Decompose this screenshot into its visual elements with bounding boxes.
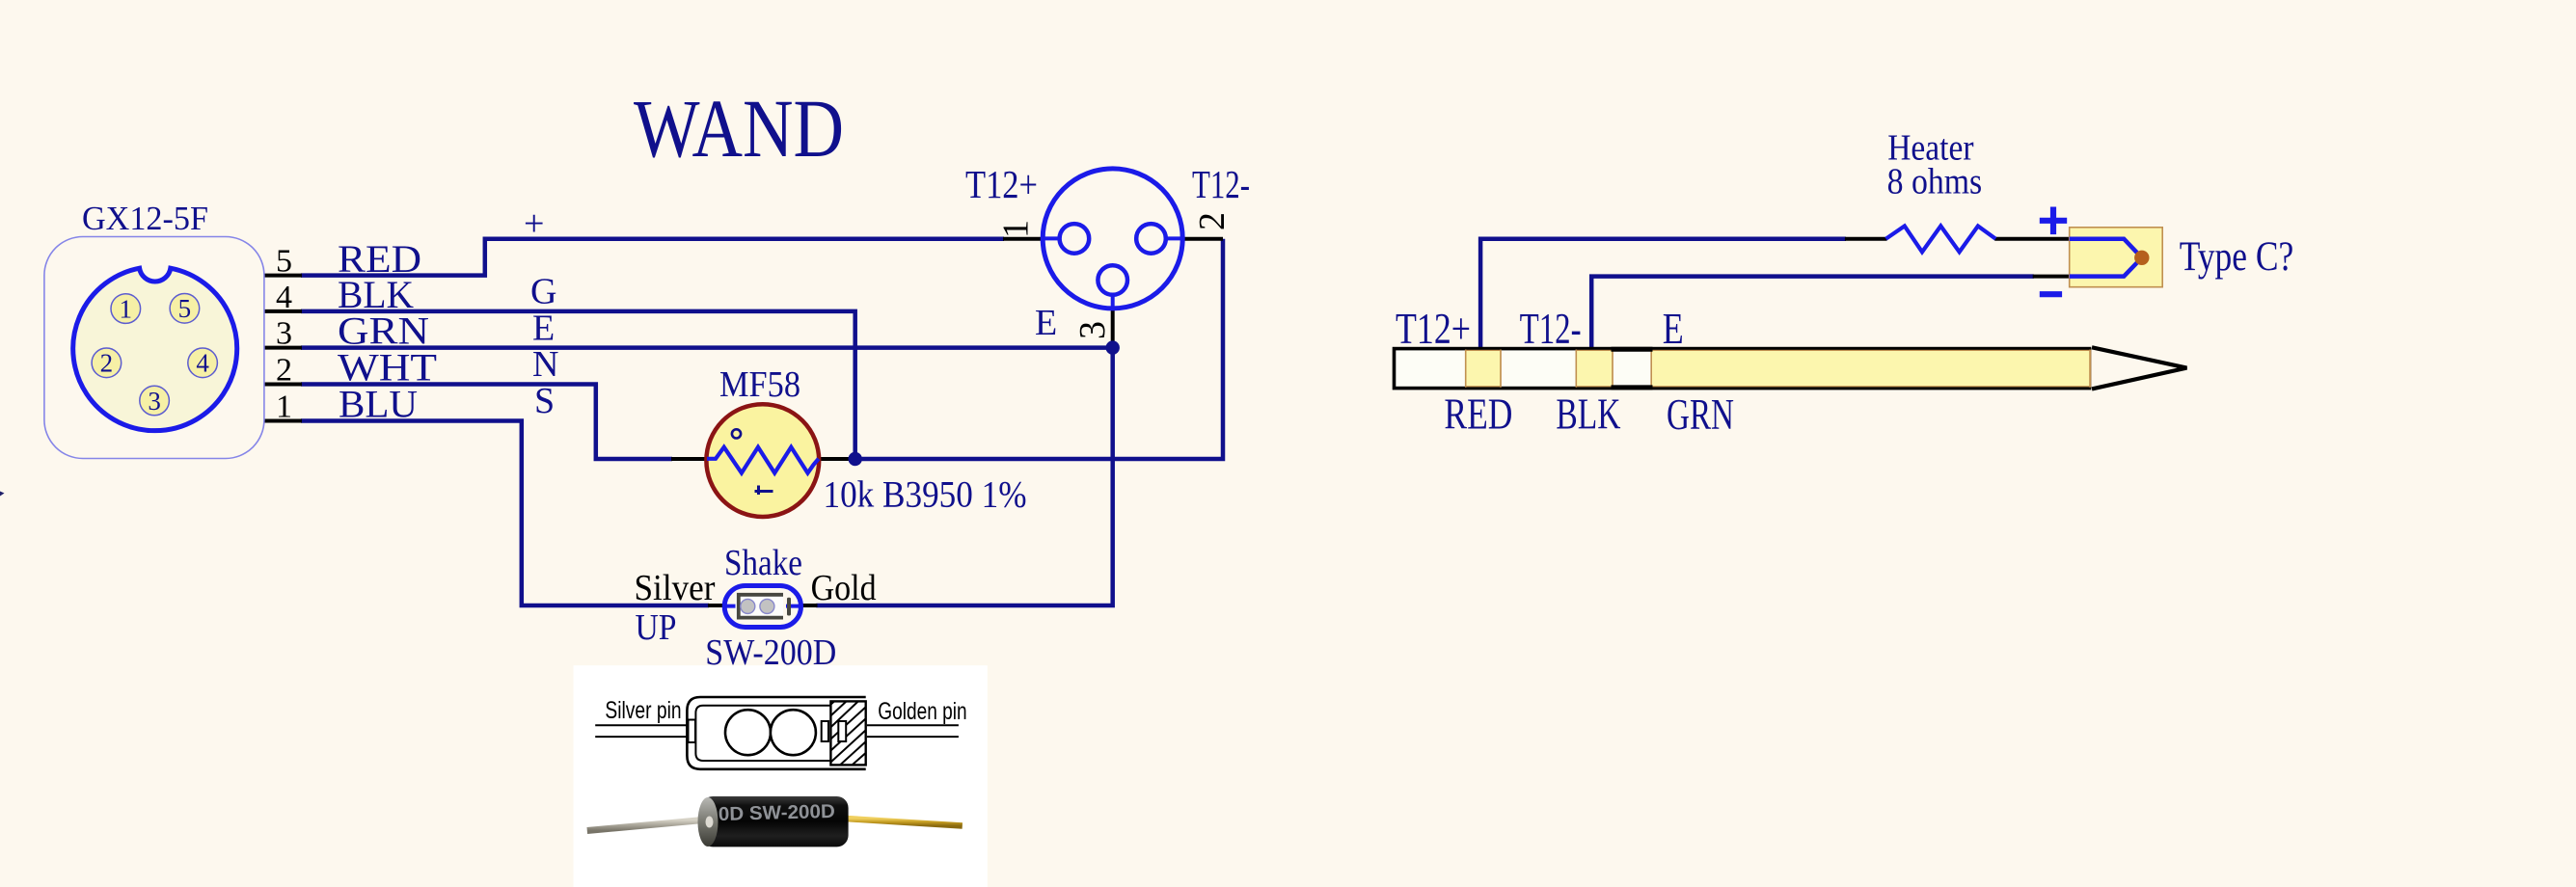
cross-section ball left — [725, 710, 771, 755]
wire thermistor junction to XLR pin2 — [855, 239, 1223, 459]
svg-text:3: 3 — [148, 387, 161, 416]
thermocouple pad square — [2070, 228, 2163, 287]
photo panel white background — [574, 665, 988, 887]
switch gold contact bar — [787, 598, 791, 616]
svg-text:2: 2 — [1192, 212, 1233, 230]
XLR pin 1 hole — [1060, 224, 1090, 254]
stub GX12 pin 3 — [264, 346, 302, 350]
stub XLR pin 3 — [1111, 309, 1115, 348]
XLR pin 1 nub — [1043, 236, 1059, 240]
svg-text:Silver pin: Silver pin — [605, 697, 681, 724]
svg-text:BLU: BLU — [339, 383, 418, 426]
stub XLR pin 2 — [1182, 237, 1223, 241]
wire T12+ vertical up and right to heater — [1480, 239, 1846, 356]
cross-section right lead double line — [867, 725, 959, 737]
tip yellow long section GRN (E) — [1651, 350, 2091, 386]
connector GX12-5F face circle with keyway notch — [73, 268, 237, 430]
svg-text:Type C?: Type C? — [2180, 234, 2294, 280]
svg-text:1: 1 — [120, 295, 133, 324]
svg-text:T12-: T12- — [1520, 305, 1582, 353]
svg-text:+: + — [524, 203, 544, 244]
connector XLR T12 circle — [1043, 169, 1182, 309]
svg-text:3: 3 — [276, 316, 292, 352]
junction dot below XLR pin 3 — [1106, 340, 1120, 354]
svg-text:S: S — [534, 381, 555, 421]
svg-text:GX12-5F: GX12-5F — [82, 200, 208, 237]
stub thermistor right lead — [819, 457, 855, 461]
wire T12- vertical up and right to tip minus — [1591, 277, 2034, 356]
cross-section ball right — [771, 710, 816, 755]
photo silver lead — [587, 820, 703, 831]
switch ball left — [741, 599, 755, 613]
cross-section right contact b — [838, 721, 846, 741]
thermocouple junction dot — [2134, 251, 2149, 265]
GX12 pin 3 — [140, 386, 170, 416]
junction dot at thermistor right — [849, 452, 862, 466]
photo gold lead — [846, 819, 963, 826]
svg-text:T12-: T12- — [1192, 162, 1250, 206]
stub heater right lead — [1994, 237, 2071, 241]
connector GX12-5F box — [44, 237, 264, 459]
svg-text:Gold: Gold — [811, 568, 877, 608]
WIRES_NAVY — [301, 239, 2034, 605]
cross-section hatched end block — [821, 688, 878, 779]
tip gap thicker border segments — [1612, 349, 1653, 388]
svg-text:8 ohms: 8 ohms — [1887, 162, 1983, 202]
switch inner can — [736, 593, 784, 620]
wire RED + net: pin5 to XLR pin1 — [301, 239, 1004, 276]
stub tip minus lead — [2033, 275, 2071, 279]
stray mark left edge — [0, 492, 5, 497]
svg-text:1: 1 — [996, 220, 1037, 238]
cross-section left contact — [689, 720, 696, 743]
GX12 pin 4 — [188, 348, 218, 378]
thermistor MF58 body — [706, 404, 819, 517]
switch SW-200D pill outline — [724, 586, 800, 628]
plus symbol blue — [2040, 207, 2067, 235]
resistor Heater 8 ohms zigzag — [1886, 226, 1996, 252]
stub GX12 pin 2 — [264, 383, 302, 387]
svg-text:UP: UP — [636, 607, 677, 648]
thermistor MF58 zigzag resistor — [707, 447, 819, 473]
svg-text:E: E — [1663, 305, 1684, 353]
photo switch left end cap — [698, 797, 719, 847]
svg-text:G: G — [530, 272, 556, 312]
wire BLU S net: pin1 down to shake switch — [301, 421, 709, 606]
svg-text:4: 4 — [196, 349, 209, 378]
svg-text:5: 5 — [276, 244, 292, 280]
stub switch left lead — [708, 604, 725, 607]
XLR pin 3 hole — [1098, 265, 1127, 295]
cross-section left lead double line — [595, 725, 689, 737]
GX12 pin 1 — [111, 294, 141, 324]
svg-text:WAND: WAND — [634, 82, 844, 175]
wire GRN E net: pin3 to XLR pin3 junction — [301, 345, 1113, 350]
svg-text:E: E — [532, 309, 555, 349]
svg-text:5: 5 — [178, 294, 192, 323]
svg-text:T12+: T12+ — [1396, 305, 1471, 353]
svg-text:3: 3 — [1072, 321, 1113, 339]
thermistor degree mark — [732, 429, 741, 438]
cross-section body inner wall — [695, 706, 865, 761]
XLR pin 2 hole — [1136, 224, 1166, 254]
stub XLR pin 1 — [1003, 237, 1044, 241]
stub heater left lead — [1845, 237, 1887, 241]
thermistor t mark — [755, 486, 773, 496]
svg-text:RED: RED — [1444, 390, 1512, 439]
svg-text:N: N — [532, 344, 558, 385]
XLR pin 3 nub — [1111, 295, 1115, 309]
switch ball right — [760, 599, 774, 613]
svg-text:10k B3950 1%: 10k B3950 1% — [824, 474, 1027, 516]
thermocouple chevron — [2070, 239, 2142, 277]
stub thermistor left lead — [671, 457, 707, 461]
wire XLR pin3 junction down to shake switch right — [816, 348, 1112, 605]
svg-text:0D SW-200D: 0D SW-200D — [719, 801, 836, 825]
svg-text:4: 4 — [276, 280, 292, 315]
svg-text:2: 2 — [276, 353, 292, 389]
cross-section right contact a — [822, 721, 828, 741]
switch inner wire stubs blue — [725, 605, 801, 608]
stub GX12 pin 5 — [264, 274, 302, 278]
GX12 pin 5 — [170, 294, 200, 324]
svg-text:GRN: GRN — [1667, 390, 1734, 439]
stub GX12 pin 1 — [264, 419, 302, 423]
svg-text:1: 1 — [276, 390, 292, 425]
BLACK_STUBS — [264, 239, 2071, 605]
XLR pin 2 nub — [1166, 236, 1182, 240]
svg-text:E: E — [1035, 303, 1057, 343]
svg-text:Golden pin: Golden pin — [878, 698, 966, 725]
tip yellow band RED (T12+) — [1466, 350, 1501, 386]
stub switch right lead — [800, 604, 818, 607]
svg-text:T12+: T12+ — [965, 162, 1038, 206]
photo switch body — [701, 796, 849, 847]
wire WHT N net: pin2 to thermistor left — [301, 385, 672, 460]
GX12 pin 2 — [92, 348, 122, 378]
svg-text:Shake: Shake — [724, 543, 802, 583]
svg-text:Silver: Silver — [635, 568, 716, 608]
T12 tip body bar — [1395, 349, 2090, 389]
svg-text:2: 2 — [100, 349, 114, 378]
tip yellow band BLK (T12-) — [1576, 350, 1613, 386]
tip band separators tan — [1466, 350, 2090, 388]
svg-text:MF58: MF58 — [719, 364, 800, 405]
cross-section body outer wall — [687, 697, 865, 769]
wire BLK G net: pin4 down to thermistor junction — [301, 311, 855, 459]
tip point triangle — [2092, 347, 2186, 389]
svg-text:BLK: BLK — [1556, 390, 1620, 439]
minus symbol blue — [2040, 291, 2062, 297]
stub GX12 pin 4 — [264, 309, 302, 313]
